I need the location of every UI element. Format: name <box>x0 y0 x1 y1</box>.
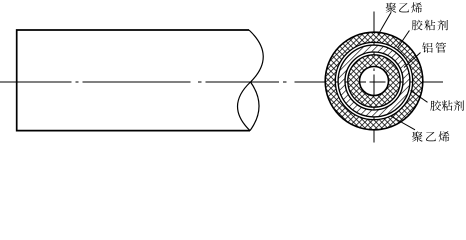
circle: outer PE / adhesive boundary <box>335 42 412 119</box>
label: 胶粘剂 (upper) <box>412 20 448 31</box>
leader line: bottom polyethylene label <box>391 116 416 130</box>
label: 聚乙烯 (bottom) <box>412 131 449 142</box>
circle: pipe bore <box>360 67 389 96</box>
pipe break symbol: upper S-arc <box>249 30 263 82</box>
pipe break symbol: lower lens right arc <box>250 82 259 131</box>
circle: outer surface of pipe <box>325 32 423 130</box>
leader line: top polyethylene label <box>378 13 391 36</box>
leader line: lower adhesive label <box>411 91 428 103</box>
circle: aluminium / adhesive boundary <box>345 52 403 110</box>
crosshatch fill: inner polyethylene layer <box>348 55 400 107</box>
pipe body outline (side view rectangle, open right end) <box>17 30 250 131</box>
crosshatch fill: outer polyethylene layer <box>325 32 423 130</box>
vertical centerline of cross-section <box>373 12 375 143</box>
pipe break symbol: lower lens left arc <box>238 82 251 131</box>
single hatch fill: aluminium tube layer <box>338 45 410 117</box>
leader line: upper adhesive label <box>398 31 410 49</box>
label: 铝管 <box>422 42 446 53</box>
label: 胶粘剂 (lower) <box>430 100 464 111</box>
horizontal centerline (dash-dot axis of pipe) <box>0 81 443 83</box>
label: 聚乙烯 (top) <box>386 2 422 13</box>
circle: adhesive / inner PE boundary <box>348 55 400 107</box>
leader line: aluminium tube label <box>404 53 421 68</box>
circle: adhesive / aluminium boundary <box>338 45 410 117</box>
